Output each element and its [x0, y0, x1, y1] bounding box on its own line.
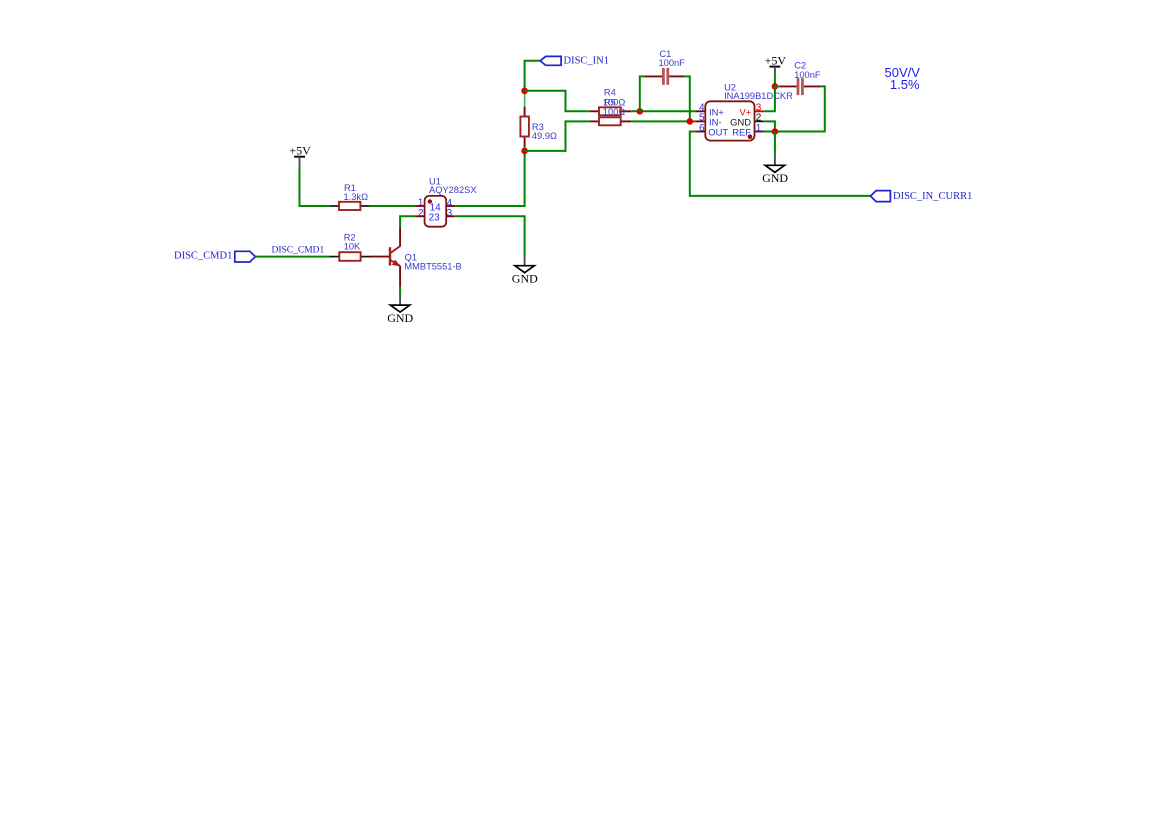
pin 2 of U2	[755, 120, 765, 122]
svg-text:OUT: OUT	[708, 127, 728, 138]
svg-text:DISC_CMD1: DISC_CMD1	[272, 246, 325, 256]
wire DISC_IN1 to R3 top node	[525, 61, 541, 91]
opto relay U1	[415, 176, 477, 226]
svg-text:R4: R4	[604, 87, 616, 97]
svg-text:100nF: 100nF	[794, 70, 821, 80]
svg-text:100Ω: 100Ω	[603, 107, 626, 117]
wire +5V to V+ node	[774, 76, 776, 87]
power symbol +5V (left)	[289, 143, 311, 166]
emitter arrow of Q1	[392, 260, 401, 267]
pin 2 of R5	[621, 120, 631, 122]
plate of C2	[797, 78, 800, 95]
pin 2 of R1	[361, 205, 370, 207]
base pin of Q1	[370, 256, 389, 258]
pin 4 of U1	[446, 205, 455, 207]
svg-text:1.3kΩ: 1.3kΩ	[344, 192, 369, 202]
pin 1 marker dot of U2	[748, 134, 753, 139]
hierarchical port DISC_CMD1	[174, 250, 255, 262]
pin 1 of R5	[590, 120, 599, 122]
wire V+ node to C2	[775, 85, 780, 87]
pin 1 of C2	[780, 85, 797, 87]
ground symbol GND at Q1	[387, 296, 413, 325]
svg-text:100nF: 100nF	[659, 58, 686, 68]
pin 1 of R3	[524, 107, 526, 117]
hierarchical port DISC_IN_CURR1	[871, 191, 973, 202]
junction at R3 top	[521, 88, 528, 95]
pin 1 of U1	[415, 205, 425, 207]
junction at IN- node	[687, 118, 694, 125]
resistor R3	[520, 107, 557, 147]
wire C2 to REF node	[775, 86, 825, 131]
svg-text:REF: REF	[732, 127, 751, 138]
wire U2 OUT to port DISC_IN_CURR1	[690, 132, 871, 196]
svg-text:3: 3	[447, 208, 453, 219]
junction at R4 output node	[637, 108, 644, 115]
wire U1 pin 4 to R3 bottom node	[455, 146, 524, 206]
pin 1 of R2	[330, 256, 340, 258]
pin 6 of U2	[695, 131, 705, 133]
ground symbol GND at U2	[762, 156, 788, 185]
wire U2 pin 2 to REF node	[764, 121, 775, 131]
pin 2 of R2	[360, 256, 370, 258]
wire R3 top node to R4	[525, 91, 590, 112]
svg-text:C2: C2	[794, 61, 806, 71]
capacitor C2	[780, 61, 821, 96]
svg-text:MMBT5551-B: MMBT5551-B	[404, 261, 461, 271]
svg-text:DISC_IN_CURR1: DISC_IN_CURR1	[893, 191, 972, 202]
wire port DISC_CMD1 to R2	[255, 256, 329, 258]
pin 3 of U1	[446, 215, 455, 217]
pin 1 of R1	[331, 205, 340, 207]
svg-text:+5V: +5V	[765, 54, 787, 68]
pin 2 of U1	[415, 215, 425, 217]
junction at R3 bottom	[521, 148, 528, 155]
pin 5 of U2	[695, 120, 705, 122]
wire R3 bottom node to R5	[525, 121, 590, 150]
wire Q1 collector to U1 pin 2	[400, 216, 415, 227]
pin 2 of R4	[621, 110, 631, 112]
svg-text:49.9Ω: 49.9Ω	[532, 131, 557, 141]
wire C1 right branch to IN- node	[684, 76, 690, 121]
svg-text:DISC_CMD1: DISC_CMD1	[174, 250, 232, 261]
pin 2 of R3	[524, 137, 526, 147]
wire U2 pin 1 to REF node	[764, 131, 775, 133]
svg-text:+5V: +5V	[289, 143, 311, 157]
wire C1 left branch	[640, 76, 645, 111]
plate of C2	[801, 78, 804, 95]
pin 2 of C2	[804, 85, 821, 87]
resistor R4	[590, 87, 631, 115]
current sense amplifier U2	[695, 82, 793, 140]
svg-text:2: 2	[418, 208, 424, 219]
wire V+ node to U2 pin 3	[764, 86, 775, 111]
wire U1 pin 3 to GND	[455, 216, 524, 257]
emitter pin of Q1	[399, 266, 401, 288]
pin 1 of C1	[645, 75, 663, 77]
svg-text:GND: GND	[512, 271, 538, 285]
wire +5V to R1	[300, 166, 331, 206]
svg-text:GND: GND	[762, 171, 788, 185]
junction at REF node	[772, 128, 779, 135]
pin 3 of U2	[755, 110, 765, 112]
resistor R5	[590, 97, 631, 125]
svg-text:DISC_IN1: DISC_IN1	[564, 56, 610, 67]
pin 1 of R4	[590, 110, 599, 112]
plate of C1	[662, 68, 665, 85]
svg-text:1: 1	[756, 123, 762, 134]
wire REF node to GND	[774, 132, 776, 157]
wire R3 top node down to R3	[524, 91, 526, 107]
wire Q1 emitter to GND	[399, 287, 401, 296]
svg-text:23: 23	[429, 213, 441, 224]
wire R5 to U2 pin 5	[631, 120, 695, 122]
power symbol +5V (right)	[765, 54, 787, 76]
svg-text:AQY282SX: AQY282SX	[429, 185, 477, 195]
svg-text:10K: 10K	[344, 242, 361, 252]
ground symbol GND at U1 pin 3	[512, 257, 538, 285]
pin 1 marker dot of U1	[428, 199, 432, 203]
junction at V+ node	[772, 83, 779, 90]
pin 1 of U2	[755, 131, 765, 133]
svg-text:6: 6	[699, 123, 705, 134]
wire R1 to U1 pin 1	[369, 205, 415, 207]
wire R4 to U2 pin 4	[631, 110, 695, 112]
transistor Q1	[370, 227, 462, 287]
pin 2 of C1	[669, 75, 684, 77]
hierarchical port DISC_IN1	[540, 56, 609, 67]
svg-text:INA199B1DCKR: INA199B1DCKR	[724, 91, 793, 101]
resistor R2	[330, 233, 371, 261]
resistor R1	[331, 183, 370, 210]
collector pin of Q1	[399, 227, 401, 247]
svg-text:GND: GND	[387, 311, 413, 325]
svg-text:1.5%: 1.5%	[890, 77, 920, 92]
capacitor C1	[645, 49, 686, 85]
pin 4 of U2	[695, 110, 705, 112]
plate of C1	[666, 68, 669, 85]
